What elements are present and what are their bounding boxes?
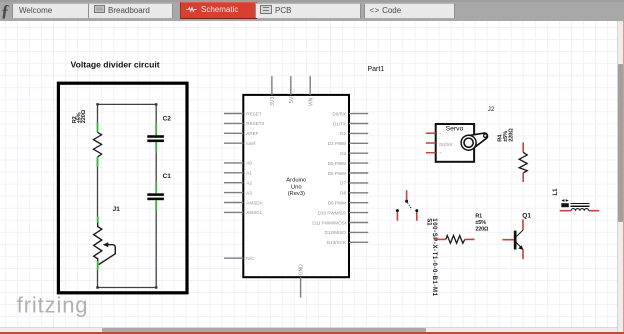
servo J2 label: [488, 106, 495, 113]
svg-text:C1: C1: [163, 173, 172, 180]
tab Welcome: [12, 3, 92, 19]
svg-text:A1: A1: [246, 171, 252, 176]
svg-text:D10 PWM/SS: D10 PWM/SS: [318, 210, 346, 215]
svg-text:RESET: RESET: [246, 111, 262, 116]
inductor L1 left lead: [560, 210, 571, 212]
U1 pin D7: [340, 181, 368, 186]
switch S1 throw lead right: [416, 212, 418, 221]
capacitor C1 label: [163, 173, 172, 180]
wire top: [98, 103, 157, 105]
resistor R4 bottom lead: [522, 173, 524, 182]
wire left upper: [97, 104, 99, 122]
inductor L1 core lines: [570, 204, 589, 207]
transistor Q1: [514, 230, 524, 250]
svg-text:D7: D7: [340, 181, 346, 186]
servo J2 pin 3: [426, 152, 441, 154]
switch S1 throw lead left: [396, 212, 398, 221]
svg-text:D12/MISO: D12/MISO: [325, 230, 347, 235]
U1 pin D8: [340, 191, 368, 196]
svg-text:D4: D4: [340, 151, 346, 156]
svg-text:(Rev3): (Rev3): [288, 191, 305, 197]
svg-text:Q1: Q1: [522, 213, 531, 220]
svg-text:D6 PWM: D6 PWM: [328, 171, 347, 176]
svg-text:L1: L1: [553, 188, 559, 196]
svg-text:GND: GND: [299, 264, 305, 276]
capacitor C2: [147, 135, 164, 142]
servo J2 pin 1: [426, 132, 441, 134]
wire left middle: [97, 167, 99, 217]
svg-text:D1/TX: D1/TX: [333, 121, 346, 126]
svg-text:Uno: Uno: [291, 184, 302, 190]
wire right middle: [155, 152, 157, 182]
tab Code: [364, 3, 455, 19]
U1 pin D10 PWM/SS: [318, 210, 369, 215]
svg-text:pulse: pulse: [439, 142, 452, 148]
U1 pin VIN: [308, 76, 314, 106]
svg-text:D5 PWM: D5 PWM: [328, 161, 347, 166]
inductor L1 coil: [571, 209, 589, 211]
resistor R2 top lead (green): [97, 123, 99, 133]
inductor L1 right lead: [589, 210, 600, 212]
svg-text:R1±5%220Ω: R1±5%220Ω: [475, 213, 489, 232]
capacitor C2 top lead (green): [155, 123, 157, 135]
capacitor C1 top lead (green): [155, 183, 157, 194]
U1 pin D5 PWM: [328, 161, 369, 166]
U1 pin A5/SCL: [224, 210, 263, 215]
capacitor C2 label: [163, 116, 172, 123]
transistor Q1 base lead: [502, 239, 513, 241]
capacitor C1 bottom lead (green): [155, 200, 157, 210]
frame title label: [71, 59, 160, 69]
tab Schematic (active): [180, 2, 257, 18]
potentiometer J1: [94, 223, 116, 265]
resistor R1 left lead: [435, 238, 446, 240]
U1 pin 3V3: [270, 76, 276, 106]
svg-text:R2±5%220Ω: R2±5%220Ω: [72, 109, 87, 123]
U1 pin AREF: [224, 131, 259, 136]
U1 pin A1: [224, 171, 252, 176]
U1 pin 5V: [289, 76, 295, 103]
inductor L1 core adjuster: [561, 199, 569, 207]
svg-text:A4/SDA: A4/SDA: [246, 200, 263, 205]
resistor R2 label: [72, 109, 87, 123]
U1 pin D3 PWM: [328, 141, 369, 146]
U1 pin D1/TX: [333, 121, 368, 126]
frame (Voltage divider circuit): [58, 83, 187, 293]
junction top-right: [155, 103, 157, 105]
svg-text:Servo: Servo: [446, 126, 464, 133]
resistor R2 bottom lead (green): [97, 157, 99, 167]
U1 pin D12/MISO: [325, 230, 369, 235]
svg-text:ioref: ioref: [246, 141, 256, 146]
U1 pin RESET2: [224, 121, 265, 126]
svg-text:D3 PWM: D3 PWM: [328, 141, 347, 146]
potentiometer J1 label: [113, 206, 121, 213]
scrollbars and window borders: [617, 21, 624, 332]
svg-text:A3: A3: [246, 190, 252, 195]
Arduino Uno Part1 body: [243, 95, 349, 277]
U1 pin A0: [224, 161, 252, 166]
U1 pin RESET: [224, 111, 262, 116]
tab PCB: [255, 3, 361, 19]
svg-text:VIN: VIN: [308, 97, 314, 106]
U1 pin D11 PWM/MOSI: [312, 220, 368, 225]
U1 pin N/C: [224, 256, 255, 261]
U1 pin D4: [340, 151, 368, 156]
svg-text:D0/RX: D0/RX: [332, 111, 346, 116]
svg-text:J2: J2: [488, 106, 495, 113]
fritzing watermark: [17, 293, 89, 318]
svg-text:5V: 5V: [289, 96, 295, 103]
capacitor C1: [147, 193, 164, 200]
svg-text:Voltage divider circuit: Voltage divider circuit: [71, 59, 160, 69]
svg-text:AREF: AREF: [246, 131, 258, 136]
junction bottom-right: [155, 286, 157, 288]
resistor R4 label: [497, 128, 514, 142]
svg-text:A2: A2: [246, 181, 252, 186]
junction top-left: [96, 103, 98, 105]
tab Breadboard: [88, 3, 173, 19]
wire bottom: [98, 287, 157, 289]
U1 pin D13/SCK: [327, 240, 368, 245]
potentiometer J1 bottom lead (green): [97, 261, 99, 269]
svg-text:Part1: Part1: [368, 66, 385, 73]
U1 pin A2: [224, 181, 252, 186]
switch S1 label: [426, 218, 437, 296]
svg-text:S1: S1: [426, 218, 432, 226]
resistor R4 top lead: [522, 142, 524, 152]
U1 pin D0/RX: [332, 111, 368, 116]
resistor R4: [519, 152, 527, 173]
resistor R2: [93, 132, 101, 157]
Arduino Part1 label: [368, 66, 385, 73]
switch S1 pole lead: [406, 190, 408, 200]
svg-text:D8: D8: [340, 191, 346, 196]
svg-text:N/C: N/C: [246, 256, 255, 261]
potentiometer J1 top lead (green): [97, 217, 99, 223]
switch S1: [396, 200, 418, 212]
wire right upper: [155, 104, 157, 123]
fritzing logo glyph: [1, 1, 12, 20]
svg-text:3V3: 3V3: [270, 97, 276, 106]
U1 pin D9 PWM: [328, 201, 369, 206]
svg-text:A5/SCL: A5/SCL: [246, 210, 262, 215]
capacitor C2 bottom lead (green): [155, 142, 157, 152]
junction bottom-left: [96, 286, 98, 288]
svg-text:R4±5%220Ω: R4±5%220Ω: [497, 128, 514, 142]
transistor Q1 label: [522, 213, 531, 220]
svg-text:D9 PWM: D9 PWM: [328, 201, 347, 206]
transistor Q1 collector lead: [522, 219, 524, 230]
svg-text:C2: C2: [163, 116, 172, 123]
Arduino title: [286, 178, 306, 198]
svg-text:J1: J1: [113, 206, 121, 213]
svg-text:RESET2: RESET2: [246, 121, 264, 126]
inductor L1 label: [553, 188, 559, 196]
resistor R1: [446, 236, 465, 244]
svg-text:A0: A0: [246, 161, 252, 166]
svg-text:100-SP-X-T1-0-0-B1-M1: 100-SP-X-T1-0-0-B1-M1: [431, 218, 437, 296]
svg-text:D2: D2: [340, 131, 346, 136]
svg-text:Arduino: Arduino: [286, 178, 306, 184]
tab bar: [0, 0, 624, 21]
resistor R1 right lead: [465, 238, 475, 240]
wire right lower: [155, 210, 157, 288]
svg-text:fritzing: fritzing: [17, 293, 89, 318]
svg-text:D11 PWM/MOSI: D11 PWM/MOSI: [312, 220, 346, 225]
wire left lower: [97, 269, 99, 287]
transistor Q1 emitter lead: [522, 250, 524, 260]
servo J2 pin pulse: [426, 142, 436, 144]
U1 pin A3: [224, 190, 252, 195]
U1 pin GND: [299, 264, 305, 298]
U1 pin D6 PWM: [328, 171, 369, 176]
servo J2 horn: [461, 133, 487, 150]
servo J2 body: [436, 124, 474, 162]
U1 pin ioref: [224, 141, 256, 146]
U1 pin A4/SDA: [224, 200, 264, 205]
svg-text:D13/SCK: D13/SCK: [327, 240, 347, 245]
resistor R1 label: [475, 213, 489, 232]
U1 pin D2: [340, 131, 368, 136]
